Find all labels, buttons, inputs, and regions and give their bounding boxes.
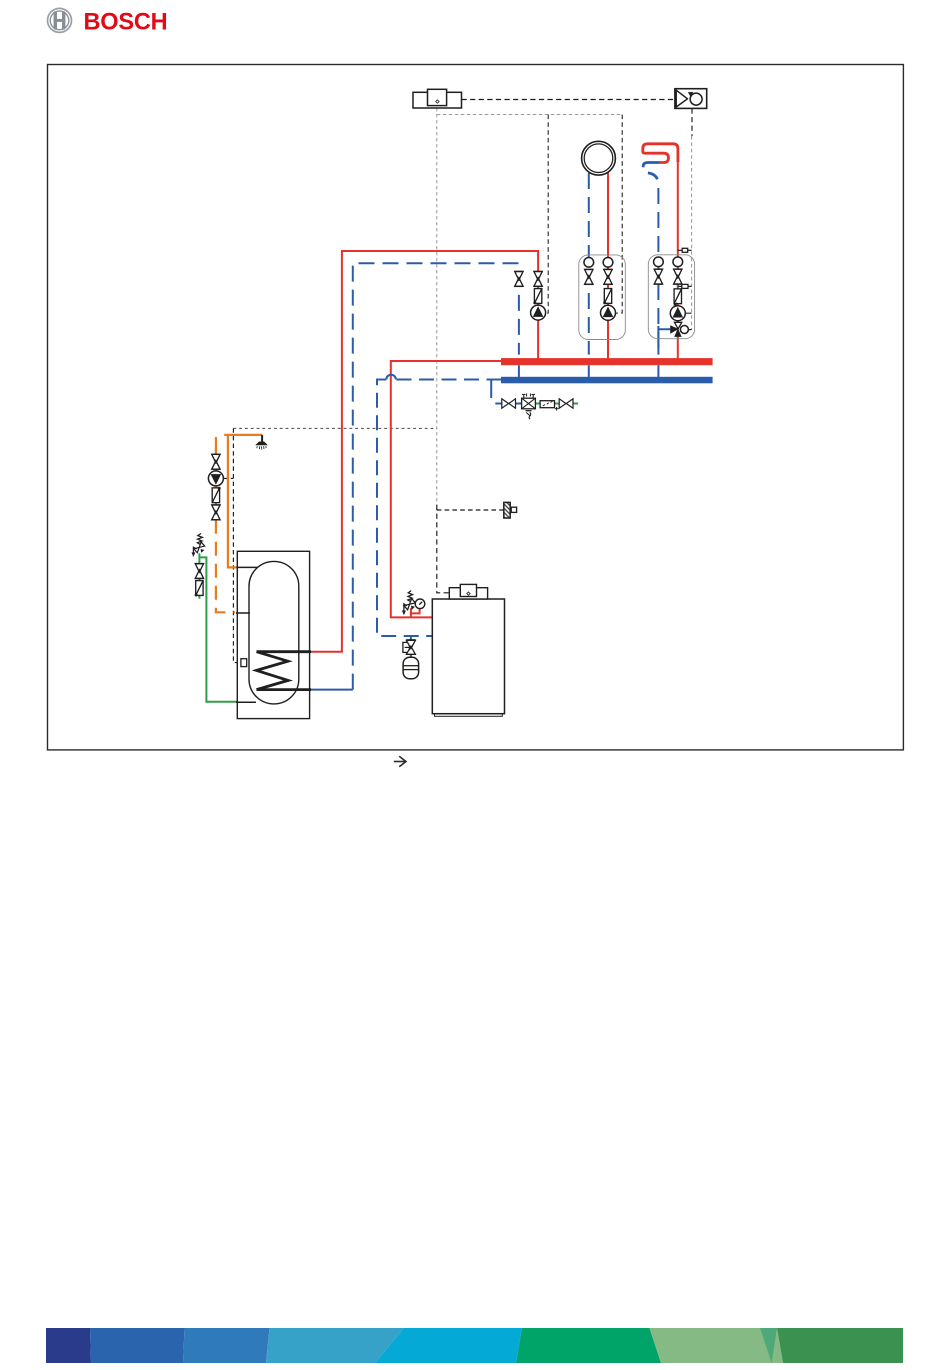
svg-text:BOSCH: BOSCH <box>84 9 168 35</box>
